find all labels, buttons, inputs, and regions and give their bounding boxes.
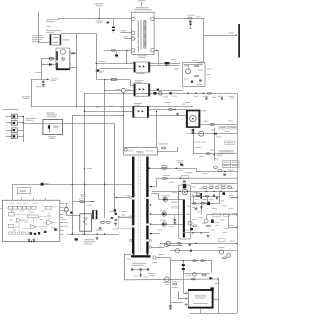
pin 3 terminal of T6201 bbox=[132, 31, 135, 34]
wire y133.7 row bbox=[193, 133, 237, 135]
label below S601 bbox=[48, 136, 56, 137]
wire from T6201 pin9 with arrow bbox=[154, 50, 158, 52]
diode D602 dark blob bbox=[96, 69, 99, 71]
dark component below pin1 wire bbox=[107, 22, 109, 24]
capacitor C805 with ground bbox=[169, 305, 172, 306]
wire D603 right lower bbox=[149, 115, 186, 117]
wire secondary d1 row bbox=[151, 194, 158, 200]
wire y68 to RY601 lower pin bbox=[100, 68, 136, 70]
wire RY601 right lower bbox=[150, 65, 180, 67]
wire row y250.7 bbox=[170, 250, 237, 252]
connector P604 AC input pin bbox=[6, 134, 24, 139]
wire relay right upper bbox=[70, 53, 76, 55]
dark marks x183 column bbox=[182, 264, 185, 266]
T601 bottom connection bar bbox=[131, 255, 151, 257]
capacitor C613 bbox=[99, 228, 102, 229]
wire left drop from T601 bottom bbox=[124, 254, 126, 279]
pin 1 terminal of T6201 bbox=[132, 17, 135, 20]
pin 4 terminal of T6201 bbox=[132, 37, 135, 40]
dark comps above row A right bbox=[180, 164, 182, 166]
resistor R631 bbox=[207, 225, 211, 227]
labels below y92 bus bbox=[194, 96, 199, 97]
wire switch to x114 corner bbox=[63, 123, 115, 125]
IC601 internal top row blocks bbox=[8, 206, 12, 209]
wire IC801 input routing bbox=[178, 298, 185, 300]
wire row y196 bbox=[191, 196, 220, 198]
capacitor C6202 on vertical stub bbox=[113, 19, 115, 26]
transistor Q604 near IC601 bbox=[64, 208, 68, 212]
vertical x183.3 bbox=[183, 261, 185, 294]
labels near T601 bottom pin bbox=[158, 253, 164, 256]
wire y63.3 to RY601 coil bbox=[96, 63, 135, 65]
wire from D603 lower output to T601 pin bbox=[156, 111, 158, 147]
label above RY602 bbox=[135, 80, 144, 81]
components inside Q602 cluster bbox=[195, 65, 199, 67]
labels sprinkle right area bbox=[196, 192, 200, 195]
T601 bottom pin bbox=[153, 256, 156, 259]
wire RY601 right upper bbox=[150, 63, 181, 65]
wire y111 junction bbox=[84, 111, 123, 113]
label on degauss vertical bbox=[194, 141, 200, 144]
filter X601 box bbox=[50, 35, 62, 46]
extra labels q602 cluster bbox=[193, 59, 198, 62]
boxed labels mid right bbox=[213, 213, 221, 216]
connector P601 AC input pin bbox=[6, 114, 24, 119]
resistor R6201 on top right wire bbox=[188, 17, 192, 19]
fusible resistor R616 with bypass bbox=[72, 201, 95, 203]
T601 secondary pin terminals bbox=[150, 186, 152, 188]
wire secondary bottom row bbox=[151, 233, 160, 235]
label below T6201 bbox=[138, 55, 147, 56]
vertical right bus x237 bbox=[237, 93, 239, 313]
label FROM AC INPUT bbox=[3, 109, 19, 110]
transistor Q601 bbox=[121, 88, 125, 92]
wire D603 left bbox=[123, 111, 132, 113]
right edge pin y197.5 bbox=[230, 197, 237, 199]
vertical wire x214 bbox=[214, 128, 216, 161]
IC601 internal mid block bbox=[28, 215, 39, 218]
heavy bus bar at right edge bbox=[238, 24, 240, 58]
pin 7 terminal of T6201 bbox=[151, 17, 154, 20]
regulator IC801 box bbox=[188, 289, 213, 308]
wire inner loop vertical x72 bbox=[72, 115, 74, 234]
diode D614 dark bbox=[70, 212, 72, 214]
ground symbols drive area bbox=[75, 238, 78, 241]
choke L601 label bbox=[22, 96, 31, 97]
IC601 op-amp 2 bbox=[31, 225, 37, 230]
vertical wire left of relay bbox=[41, 59, 43, 80]
junction dot and cap on y171.5 bbox=[224, 171, 225, 172]
transistor Q604 bbox=[204, 219, 208, 223]
wire from X601 right bbox=[61, 33, 96, 35]
transistor Q605 bbox=[188, 221, 192, 225]
wire y124.5 row bbox=[200, 124, 237, 126]
dark cap column below bus bbox=[200, 193, 202, 199]
IC601 top pin ticks bbox=[21, 198, 23, 200]
transistor Q602 bbox=[186, 69, 191, 74]
wire corner into RY602 top bbox=[130, 80, 132, 86]
wire Q601 base feed bbox=[105, 90, 122, 92]
wire vertical on heatsink left edge bbox=[178, 191, 180, 199]
dark cap stack above heatsink bbox=[183, 181, 186, 182]
cluster circles right y250-258 bbox=[220, 250, 224, 254]
wire into RL601 upper-left bbox=[41, 58, 56, 60]
resistor R801 circle bbox=[166, 241, 170, 245]
boxed labels below bus bbox=[193, 193, 200, 196]
boxed label 4A bbox=[219, 126, 228, 129]
ground symbols below IC601 bbox=[28, 238, 31, 241]
transformer T6201 switching transformer bbox=[132, 12, 155, 54]
resistor R622 on row B bbox=[163, 177, 168, 179]
label TP601 bbox=[50, 78, 58, 81]
2x2 boxed label table right bbox=[223, 161, 240, 168]
wire row y203.4 bbox=[191, 203, 220, 205]
wire inner loop top y115.3 bbox=[72, 115, 123, 117]
labels near IC801 bbox=[172, 280, 179, 283]
resistor row y187.5 bbox=[203, 187, 207, 189]
boxed label on y153 row bbox=[219, 150, 233, 153]
wire row A y168.2 from T601 top right bbox=[149, 168, 196, 170]
wire T601 pin4 left bbox=[119, 217, 130, 219]
IC601 op-amp 3 bbox=[47, 220, 53, 225]
wire D603 right upper bbox=[149, 109, 186, 111]
dark device bar inside heatsink bbox=[183, 200, 185, 238]
resistor R603 box on wire bbox=[49, 57, 53, 60]
resistor pair y275 bbox=[193, 272, 197, 276]
label T6201 value bbox=[136, 7, 149, 8]
bridge rectifier D603 box bbox=[133, 106, 149, 117]
resistor R619 above T601 right bbox=[162, 147, 166, 149]
capacitor C801 dark bbox=[189, 244, 192, 245]
wire from T601 bottom pin right bbox=[156, 257, 170, 259]
wire bus through S601 bbox=[23, 123, 43, 125]
wire T601 pin6 left bbox=[116, 197, 129, 199]
resistor R622 bbox=[164, 245, 168, 247]
diode D601 on wire bbox=[49, 63, 51, 65]
resistor pair below table bbox=[214, 167, 218, 169]
svg-text:IC601: IC601 bbox=[19, 189, 27, 193]
fuse F801 circle bbox=[165, 277, 170, 282]
wire row y273.3 bbox=[183, 273, 210, 275]
label VOLTAGE SELECT SWITCH bbox=[46, 112, 55, 113]
wire TP601 row bbox=[31, 79, 49, 81]
label AC near degauss bbox=[182, 104, 186, 105]
heatsink STR601 outline bbox=[179, 185, 191, 239]
wire y184.3 control rail bbox=[12, 184, 132, 186]
wire from T6201 pin5 to left bbox=[104, 50, 132, 52]
capacitor C615 bbox=[111, 218, 114, 219]
diode and lamp on y93 bus bbox=[154, 92, 157, 95]
label R607 bbox=[186, 133, 192, 134]
wire into RL601 lower-left bbox=[41, 64, 56, 66]
diode D611 bbox=[163, 197, 167, 201]
wire down right side bbox=[203, 18, 205, 63]
wire vertical x104 bbox=[104, 79, 106, 211]
diode D6202 below pin5 wire bbox=[116, 50, 118, 54]
wire L601 vertical bbox=[31, 79, 33, 107]
wire long bottom y279.8 bbox=[124, 278, 218, 281]
wire to T6201 pin1 from left bbox=[59, 18, 132, 20]
diode D604 on wire bbox=[214, 132, 216, 135]
IC601 internal left block bbox=[8, 213, 15, 216]
wire TH601 bottom vertical bbox=[193, 128, 195, 154]
resistor R617 bbox=[100, 221, 104, 223]
wire Q601 to RY602 bbox=[125, 90, 133, 92]
svg-text:T601: T601 bbox=[136, 150, 144, 154]
fusible resistor R621 with bypass loop bbox=[162, 167, 167, 169]
vertical wire x96 bbox=[96, 34, 98, 80]
vertical wire x76 bbox=[76, 34, 78, 107]
resistor R805 label bbox=[173, 283, 177, 285]
thermistor R607 disc bbox=[199, 131, 204, 136]
IC601 internal wires bbox=[5, 204, 58, 232]
label near right vertical wire bbox=[198, 62, 204, 63]
resistor R608 on y93 bus bbox=[207, 92, 211, 94]
dark cap at IC801 top right bbox=[210, 287, 213, 290]
components on x114 line bbox=[114, 209, 116, 211]
boxed label above heatsink bbox=[181, 176, 189, 179]
pin circle inside T601 label box bbox=[125, 148, 128, 151]
wire row y183.3 bbox=[191, 183, 238, 185]
wire horizontal y106.8 ac feed bbox=[31, 106, 193, 108]
wire long horizontal y93 bbox=[84, 93, 237, 95]
dark cluster on RY601 upper wire bbox=[165, 62, 170, 65]
arrow to B+ above T6201 bbox=[141, 3, 143, 7]
relay RY602 contact box bbox=[134, 84, 150, 97]
labels right edge above degauss bbox=[229, 95, 235, 98]
left pin stub IC601 bbox=[1, 208, 3, 210]
diode D613 bbox=[162, 222, 166, 226]
dark comp near right bus bbox=[222, 192, 225, 195]
switch contact inside S601 bbox=[49, 124, 51, 133]
boxed label top right bus bbox=[225, 186, 232, 189]
wire secondary d2 row bbox=[151, 214, 183, 216]
diode D612 bbox=[162, 212, 166, 216]
wire row y214.8 bbox=[207, 214, 237, 216]
boxed label fuse bbox=[229, 126, 238, 129]
more labels right cluster bbox=[192, 186, 197, 189]
capacitor C604 branch bbox=[43, 79, 45, 81]
IC801 left pins bbox=[185, 293, 189, 295]
junction dots y107 row bbox=[96, 106, 97, 107]
lamp symbol inside RL601 bbox=[62, 57, 65, 60]
wire row B y178.25 riser from pin bbox=[152, 178, 238, 186]
IC601 dark bottom cluster bbox=[30, 232, 33, 235]
labels secondary diode rows bbox=[160, 209, 166, 212]
label LF601 line filter bbox=[26, 118, 36, 119]
label right of X601 bbox=[63, 39, 70, 40]
resistor R618 bbox=[106, 221, 110, 223]
IC801 text bbox=[195, 295, 207, 296]
T601 secondary winding bar bbox=[146, 157, 148, 197]
wire left loop vertical x84 bbox=[84, 93, 86, 234]
wire y153.7 row bbox=[193, 153, 237, 155]
vertical x219.8 bbox=[219, 191, 221, 203]
label above bottom row bbox=[186, 274, 191, 277]
wire inner loop vertical x114 bbox=[114, 124, 116, 213]
snubber network box Q602 area bbox=[183, 63, 206, 87]
junction dots on y93 bus bbox=[187, 93, 188, 94]
vertical from Q601 down to T601 bbox=[123, 92, 125, 147]
drive transformer T602 small box bbox=[92, 210, 97, 219]
posistor disc inside TH601 bbox=[190, 115, 196, 121]
snubber loop rectangle bbox=[119, 217, 132, 229]
label above right bus bbox=[217, 185, 222, 186]
label block VOL SW bbox=[32, 35, 43, 36]
labels R615 cluster bbox=[80, 194, 86, 197]
resistor R803 circle bbox=[175, 249, 179, 253]
relay RY601 contact box bbox=[134, 62, 150, 72]
T601 primary pin terminals bbox=[129, 196, 131, 198]
labels R620 above row A bbox=[176, 159, 183, 162]
degauss posistor TH601 box bbox=[186, 110, 200, 128]
pin 5 terminal of T6201 bbox=[132, 49, 135, 52]
boxed label thermal bbox=[225, 141, 235, 145]
T601 primary winding bar bbox=[132, 157, 134, 198]
label below RY601 bbox=[137, 73, 146, 74]
connector P602 AC input pin bbox=[6, 121, 24, 126]
device circle in heatsink bbox=[182, 189, 188, 195]
wire IC801 right down bbox=[213, 299, 218, 301]
wire top-left vertical bbox=[38, 12, 40, 42]
label cluster top-left wires bbox=[95, 2, 104, 5]
wire x104 into drive bbox=[104, 211, 106, 218]
dark connector on degauss vertical bbox=[192, 129, 195, 131]
wire to right edge with label bbox=[203, 35, 236, 37]
wire y215 segment bbox=[66, 215, 80, 217]
IC601 op-amp 1 bbox=[17, 218, 22, 222]
T601 core lines bbox=[139, 156, 141, 253]
label R604 bbox=[99, 70, 105, 73]
wire from T601 box right edge bbox=[158, 151, 178, 153]
snubber components bbox=[118, 216, 119, 217]
transformer T601 label box bbox=[124, 148, 158, 156]
label R602 1W bbox=[35, 72, 41, 73]
vertical wires right cluster bbox=[193, 196, 195, 203]
extra dark caps right cluster bbox=[216, 197, 217, 200]
IC601 right pin stubs bbox=[60, 203, 64, 205]
right edge pin y190.8 bbox=[236, 191, 237, 192]
capacitor C621 bbox=[174, 220, 177, 221]
wire from T6201 pin7 to right bbox=[154, 18, 203, 20]
capacitor marks near D603 right bbox=[177, 113, 178, 116]
label above D603 bbox=[134, 103, 142, 104]
relay RL601 body bbox=[56, 48, 70, 70]
stub labels T6201 pin3 pin4 bbox=[121, 32, 132, 34]
boxed label small secondary bbox=[172, 206, 179, 208]
labels C614 values bbox=[84, 239, 94, 240]
labels bottom center bbox=[152, 261, 157, 264]
resistor R605 box on y79.6 wire bbox=[112, 78, 117, 80]
wire row y278.8 comps bbox=[191, 278, 195, 280]
labels below pin1 wire bbox=[96, 20, 104, 23]
wire bottom rail y234 bbox=[67, 234, 119, 236]
snubber labels below T601 bbox=[132, 263, 146, 264]
label Q603 bbox=[96, 230, 104, 231]
boxed label lower right bbox=[219, 239, 226, 242]
ground right area bbox=[207, 235, 210, 238]
IC601 control IC outline bbox=[2, 200, 60, 241]
box outline y260.7 bbox=[170, 260, 212, 262]
pin stub from IC601 top bbox=[12, 184, 14, 200]
wire row y243.3 bbox=[160, 243, 237, 245]
right edge pin y243.3 bbox=[236, 243, 237, 244]
branch from pin5 wire down to rectifier feed bbox=[126, 50, 128, 63]
labels right mid rows bbox=[204, 120, 209, 123]
wire secondary d3 row bbox=[151, 224, 183, 226]
junction dot mid bbox=[84, 168, 85, 169]
right edge pin y227.5 bbox=[228, 227, 237, 229]
bus wire from AC connectors bbox=[23, 117, 25, 143]
wire relay right lower bbox=[70, 67, 76, 69]
small caps under y92 bus bbox=[206, 97, 207, 100]
capacitor stack below top right wire bbox=[189, 21, 191, 23]
wire bottom y313.3 bbox=[190, 313, 237, 315]
right edge pin y214.8 bbox=[236, 214, 237, 215]
label right of TH601 bbox=[201, 110, 206, 111]
wire main secondary bus y191.3 bbox=[152, 191, 237, 193]
label box IC601 bbox=[18, 188, 31, 194]
pin 9 terminal of T6201 bbox=[151, 49, 154, 52]
snubber components row bbox=[132, 269, 149, 271]
wire horizontal y79.6 bbox=[96, 79, 130, 81]
connector P603 AC input pin bbox=[6, 128, 24, 132]
labels CP601 area bbox=[46, 19, 59, 20]
transistor Q603 box bbox=[80, 214, 92, 231]
IC601 internal text labels bbox=[10, 202, 15, 205]
IC601 bottom row marks bbox=[9, 232, 12, 234]
resistor R802 bbox=[177, 242, 181, 244]
voltage select switch S601 box bbox=[43, 119, 63, 134]
wire row y232.9 bbox=[183, 232, 209, 234]
wire RY602 right bbox=[150, 90, 183, 92]
diode D605 on control rail bbox=[41, 183, 44, 186]
